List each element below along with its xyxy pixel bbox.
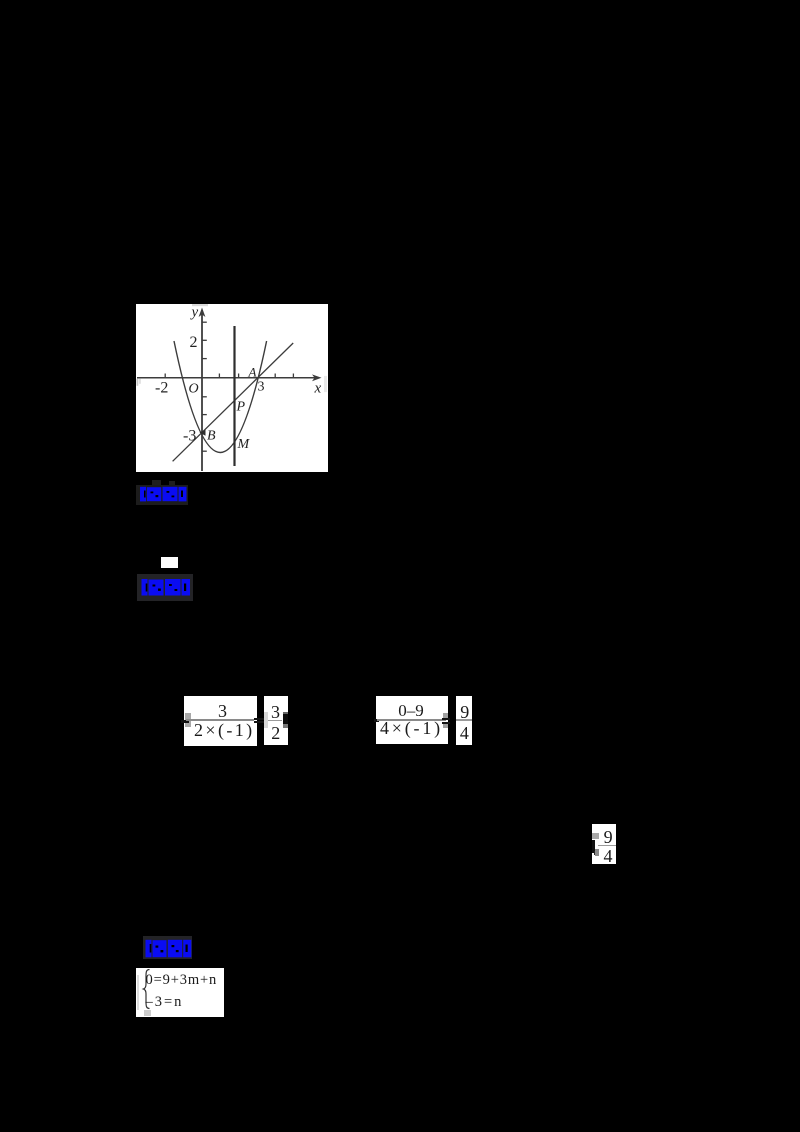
x ticks [164, 374, 166, 379]
svg-text:A: A [248, 365, 257, 380]
blue label 1 [answer] [152, 480, 161, 486]
fraction3 denominator 4x(-1) [380, 718, 443, 739]
B point marker [200, 429, 206, 435]
fraction4 numerator 9 [460, 702, 469, 723]
fraction4 denominator 4 [460, 723, 469, 744]
blue label 2 [analysis] [137, 574, 193, 601]
svg-text:M: M [237, 437, 251, 452]
fraction2 numerator 3 [271, 702, 280, 723]
svg-text:-2: -2 [155, 380, 168, 397]
fraction2 denominator 2 [271, 723, 280, 744]
fraction5 denominator 4 [604, 846, 613, 867]
fraction box 3: 0-9 / 4x(-1) [376, 696, 448, 744]
dark block right of box2 [283, 712, 288, 714]
fraction1 bar [186, 719, 254, 721]
gray mark at fraction1 left [185, 713, 191, 727]
graph figure box [136, 304, 328, 477]
fraction3 numerator 0-9 [398, 701, 424, 721]
fraction box 4: 9/4 [456, 696, 473, 745]
x-axis [137, 377, 319, 379]
svg-text:-3: -3 [183, 428, 196, 445]
fraction3 bar [377, 719, 446, 720]
fraction box 2: 3/2 [264, 696, 289, 745]
standalone fraction 9/4 [592, 824, 616, 865]
svg-text:O: O [189, 382, 199, 397]
fraction4 bar [456, 719, 472, 720]
parabola [174, 341, 267, 453]
minus sign (partially cut) [181, 720, 189, 723]
faint gray artifacts [192, 304, 208, 306]
equals 1 [254, 718, 268, 720]
x-axis arrow [312, 374, 322, 381]
fraction2 bar [268, 720, 282, 721]
y ticks [202, 321, 207, 323]
svg-text:–3=n: –3=n [145, 994, 184, 1010]
curly brace [144, 970, 150, 1009]
equals 2 [442, 718, 450, 720]
svg-text:y: y [190, 305, 199, 321]
vertical line PM [233, 326, 235, 466]
y-axis [201, 310, 203, 471]
line AB [173, 343, 294, 461]
svg-text:B: B [207, 429, 216, 444]
svg-text:0=9+3m+n: 0=9+3m+n [146, 972, 218, 988]
blue label 3 [detailed solution] [143, 936, 192, 959]
white dash [161, 557, 178, 568]
fraction5 numerator 9 [604, 827, 613, 848]
fraction box 1: 3 / 2x(-1) [184, 696, 257, 746]
fraction1 numerator 3 [218, 701, 227, 722]
fraction5 bar [598, 845, 616, 846]
svg-text:3: 3 [258, 380, 265, 395]
svg-text:x: x [314, 381, 322, 397]
svg-text:2: 2 [190, 334, 198, 351]
y-axis arrow [199, 308, 206, 318]
system of equations box [136, 968, 224, 1017]
fraction1 denominator 2x(-1) [194, 720, 255, 741]
svg-text:P: P [236, 400, 246, 415]
